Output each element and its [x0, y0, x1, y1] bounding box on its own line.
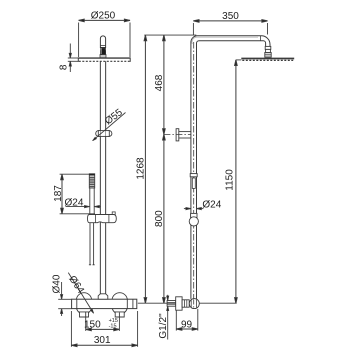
svg-text:Ø24: Ø24 [65, 197, 84, 208]
check valve stubs [80, 312, 125, 317]
svg-text:1150: 1150 [225, 169, 236, 191]
slider bracket side view [176, 129, 191, 141]
dim G1/2 [158, 295, 169, 340]
svg-text:99: 99 [181, 319, 193, 330]
svg-text:Ø250: Ø250 [91, 11, 116, 22]
dim 1150 [225, 60, 242, 303]
leader D55 [92, 107, 126, 142]
hose [89, 223, 95, 265]
hand shower head [89, 174, 94, 188]
svg-text:150: 150 [84, 319, 101, 330]
dim D24 front [65, 197, 101, 208]
svg-text:-15: -15 [109, 323, 117, 329]
svg-text:800: 800 [154, 210, 165, 227]
svg-text:1268: 1268 [136, 157, 147, 180]
svg-text:350: 350 [222, 11, 239, 22]
svg-text:468: 468 [154, 74, 165, 91]
dim 99 [176, 309, 198, 331]
holder ball side [189, 213, 198, 226]
dim 1268 [136, 35, 147, 303]
dim 468 / 800 [154, 35, 165, 303]
head connector side [265, 46, 271, 57]
slider knob D55 front [96, 131, 112, 137]
shower head plate front [78, 58, 130, 62]
svg-text:187: 187 [53, 185, 64, 202]
mixer front body [72, 299, 137, 308]
pipe nut above mixer [98, 294, 108, 299]
arm pipe side view [191, 36, 270, 47]
dim D250 top [79, 11, 130, 58]
head connector front [100, 36, 106, 58]
dim 187 [53, 174, 95, 214]
svg-text:Ø24: Ø24 [202, 199, 221, 210]
pipe collar side [190, 174, 197, 189]
svg-text:Ø55: Ø55 [103, 107, 125, 127]
mixer side view [167, 297, 199, 310]
dim 150 with tolerance [84, 312, 119, 331]
union circles D64 [76, 293, 127, 314]
dash-dot extension at slider [164, 133, 191, 135]
top extension line [144, 34, 196, 36]
svg-text:8: 8 [58, 64, 69, 70]
slider holder front [88, 212, 117, 223]
shower head side view [241, 59, 294, 61]
dim 301 [71, 311, 137, 347]
dim D40 [52, 274, 72, 316]
side riser pipe [191, 42, 197, 300]
svg-text:Ø40: Ø40 [52, 274, 63, 293]
leader D64 [66, 273, 94, 314]
hand shower handle [90, 188, 94, 214]
dim 350 top right [193, 11, 267, 35]
axis extension line bottom [138, 302, 176, 304]
svg-text:G1/2": G1/2" [158, 313, 169, 339]
dim D24 side [184, 199, 222, 210]
svg-text:301: 301 [94, 335, 111, 346]
riser pipe front [100, 61, 105, 295]
dim 8 head thickness [58, 44, 78, 73]
